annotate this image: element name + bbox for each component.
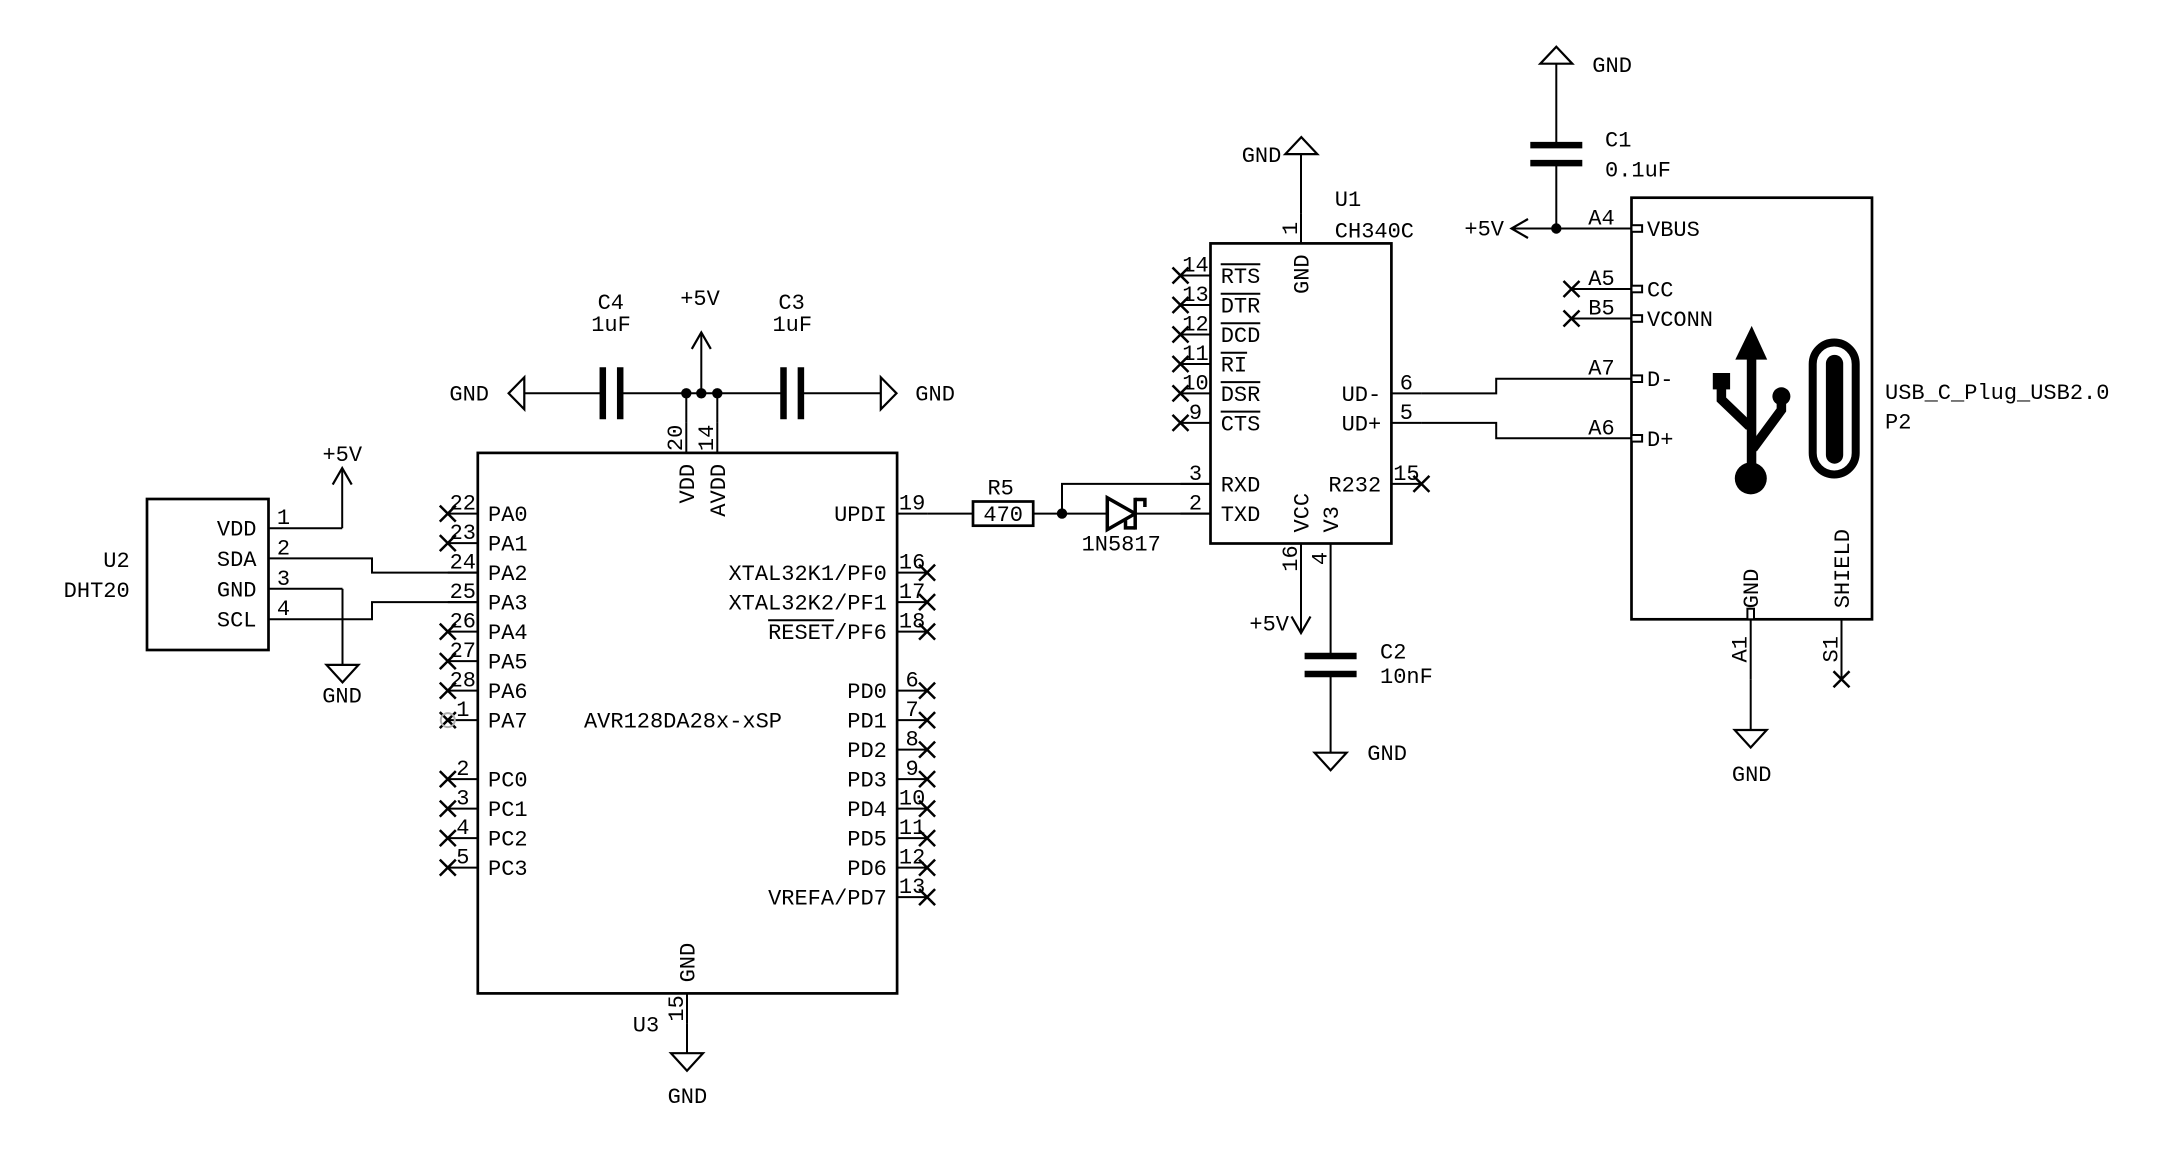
pin 16 VCC xyxy=(1279,493,1316,574)
svg-text:27: 27 xyxy=(450,639,476,664)
svg-text:1uF: 1uF xyxy=(591,313,631,338)
capacitor C4 xyxy=(600,367,607,419)
svg-text:AVR128DA28x-xSP: AVR128DA28x-xSP xyxy=(584,710,782,735)
svg-text:24: 24 xyxy=(450,551,476,576)
svg-text:DHT20: DHT20 xyxy=(64,579,130,604)
sensor U2 box xyxy=(147,499,269,650)
svg-text:6: 6 xyxy=(1400,371,1413,396)
pin 24 PA2 xyxy=(448,551,528,588)
svg-text:VDD: VDD xyxy=(676,464,701,504)
svg-text:DCD: DCD xyxy=(1221,324,1261,349)
svg-text:PA0: PA0 xyxy=(488,503,528,528)
pin 20 VDD xyxy=(664,423,701,504)
svg-text:PD6: PD6 xyxy=(847,857,887,882)
svg-text:15: 15 xyxy=(1393,462,1419,487)
ground GND (P2) xyxy=(1732,730,1772,788)
pin 4 PC2 xyxy=(440,816,528,853)
wire VCC down xyxy=(1300,574,1302,634)
wire VDD to +5V xyxy=(299,527,343,529)
svg-text:UD-: UD- xyxy=(1342,383,1382,408)
svg-text:U2: U2 xyxy=(103,549,129,574)
pin 7 PD1 xyxy=(847,698,935,735)
svg-text:VREFA/PD7: VREFA/PD7 xyxy=(768,887,887,912)
wire GND to C4 xyxy=(524,392,603,394)
svg-text:GND: GND xyxy=(915,383,955,408)
pin 4 V3 xyxy=(1308,506,1345,573)
svg-text:VBUS: VBUS xyxy=(1647,218,1700,243)
svg-text:28: 28 xyxy=(450,669,476,694)
wire diode to TXD xyxy=(1135,513,1210,515)
svg-text:+5V: +5V xyxy=(680,287,720,312)
pin 14 RTS xyxy=(1173,254,1261,291)
svg-text:A6: A6 xyxy=(1588,416,1614,441)
svg-text:10: 10 xyxy=(1182,371,1208,396)
pin 12 PD6 xyxy=(847,846,935,883)
svg-text:U1: U1 xyxy=(1335,188,1361,213)
pin 16 XTAL32K1_PF0 xyxy=(728,551,935,588)
wire GND pin up xyxy=(1300,154,1302,213)
wire UPDI to R5 xyxy=(927,513,973,515)
pin 1 GND xyxy=(1279,213,1316,294)
svg-text:PA5: PA5 xyxy=(488,651,528,676)
svg-text:22: 22 xyxy=(450,492,476,517)
svg-text:4: 4 xyxy=(1308,552,1333,565)
svg-text:PA4: PA4 xyxy=(488,621,528,646)
pin 14 AVDD xyxy=(695,423,732,517)
svg-text:R5: R5 xyxy=(987,477,1013,502)
svg-text:+5V: +5V xyxy=(322,443,362,468)
wire UD+ to D+ xyxy=(1421,423,1631,438)
svg-text:9: 9 xyxy=(1189,401,1202,426)
svg-text:PD0: PD0 xyxy=(847,680,887,705)
svg-text:17: 17 xyxy=(899,580,925,605)
svg-text:SDA: SDA xyxy=(217,548,257,573)
svg-text:1: 1 xyxy=(1279,222,1304,235)
ground GND (C1 top) xyxy=(1540,47,1632,79)
pin 12 DCD xyxy=(1173,313,1261,350)
svg-text:C1: C1 xyxy=(1605,129,1631,154)
pin 9 CTS xyxy=(1173,401,1261,438)
svg-text:DSR: DSR xyxy=(1221,383,1261,408)
svg-text:A7: A7 xyxy=(1588,357,1614,382)
svg-text:16: 16 xyxy=(1279,545,1304,571)
svg-text:USB_C_Plug_USB2.0: USB_C_Plug_USB2.0 xyxy=(1885,381,2109,406)
svg-text:SCL: SCL xyxy=(217,609,257,634)
svg-text:1: 1 xyxy=(456,698,469,723)
pin 1 VDD of U2 xyxy=(217,506,299,543)
pin 27 PA5 xyxy=(440,639,528,676)
pin A1 GND of P2 xyxy=(1729,569,1766,680)
svg-text:PA7: PA7 xyxy=(488,710,528,735)
power +5V (VCC) xyxy=(1249,613,1310,638)
svg-text:26: 26 xyxy=(450,610,476,635)
svg-text:GND: GND xyxy=(1242,144,1282,169)
svg-text:5: 5 xyxy=(456,846,469,871)
svg-text:PD4: PD4 xyxy=(847,798,887,823)
svg-text:3: 3 xyxy=(456,787,469,812)
pin 13 VREFA_PD7 xyxy=(768,875,935,912)
svg-text:1: 1 xyxy=(277,506,290,531)
svg-text:B5: B5 xyxy=(1588,297,1614,322)
svg-text:VCONN: VCONN xyxy=(1647,308,1713,333)
svg-text:PA1: PA1 xyxy=(488,533,528,558)
svg-text:3: 3 xyxy=(277,567,290,592)
svg-text:GND: GND xyxy=(1291,254,1316,294)
svg-text:GND: GND xyxy=(668,1085,708,1110)
pin A4 VBUS of P2 xyxy=(1588,207,1700,244)
svg-text:2: 2 xyxy=(1189,492,1202,517)
wire GND (U2) xyxy=(299,588,343,590)
pin B5 VCONN of P2 xyxy=(1564,297,1714,334)
svg-text:23: 23 xyxy=(450,521,476,546)
svg-text:A5: A5 xyxy=(1588,267,1614,292)
svg-text:11: 11 xyxy=(1182,342,1208,367)
svg-text:2: 2 xyxy=(456,757,469,782)
pin A7 D- of P2 xyxy=(1588,357,1673,394)
junction (+5V stem) xyxy=(696,388,706,398)
svg-text:1N5817: 1N5817 xyxy=(1082,533,1161,558)
svg-text:D-: D- xyxy=(1647,368,1673,393)
pin 26 PA4 xyxy=(440,610,528,647)
svg-text:18: 18 xyxy=(899,610,925,635)
USB-C receptacle icon xyxy=(1813,343,1856,475)
pin 6 PD0 xyxy=(847,669,935,706)
svg-text:PC1: PC1 xyxy=(488,798,528,823)
svg-text:A4: A4 xyxy=(1588,207,1614,232)
svg-text:PA3: PA3 xyxy=(488,592,528,617)
pin 2 SDA of U2 xyxy=(217,536,299,573)
svg-text:P2: P2 xyxy=(1885,411,1911,436)
pin 10 PD4 xyxy=(847,787,935,824)
wire SCL to PA3 xyxy=(299,602,478,619)
pin 9 PD3 xyxy=(847,757,935,794)
svg-text:PC3: PC3 xyxy=(488,857,528,882)
svg-text:U3: U3 xyxy=(633,1014,659,1039)
resistor R5 xyxy=(973,502,1033,526)
pin 15 R232 xyxy=(1328,462,1429,499)
wire U3 GND pin down xyxy=(686,1023,688,1053)
wire V3 to C2 xyxy=(1330,574,1332,657)
power +5V (VBUS) xyxy=(1464,218,1528,243)
svg-text:D+: D+ xyxy=(1647,428,1673,453)
svg-text:RTS: RTS xyxy=(1221,265,1261,290)
svg-text:V3: V3 xyxy=(1320,506,1345,532)
junction (VDD pin20) xyxy=(681,388,691,398)
pin 4 SCL of U2 xyxy=(217,597,299,634)
wire R5 to diode xyxy=(1033,513,1107,515)
svg-text:TXD: TXD xyxy=(1221,503,1261,528)
wire +5V to VBUS xyxy=(1512,228,1632,230)
pin 6 UD- xyxy=(1342,371,1422,408)
svg-text:PC0: PC0 xyxy=(488,769,528,794)
junction (AVDD pin14) xyxy=(712,388,722,398)
svg-text:+5V: +5V xyxy=(1249,613,1289,638)
pin 13 DTR xyxy=(1173,283,1261,320)
svg-text:PA6: PA6 xyxy=(488,680,528,705)
wire SDA to PA2 xyxy=(299,558,478,572)
ground GND (U2) xyxy=(322,665,362,710)
pin 11 RI xyxy=(1173,342,1248,379)
pin 17 XTAL32K2_PF1 xyxy=(728,580,935,617)
wire A1 GND down xyxy=(1750,679,1752,730)
wire UD- to D- xyxy=(1421,379,1631,394)
svg-text:GND: GND xyxy=(1732,763,1772,788)
power +5V (rail) xyxy=(680,287,720,393)
svg-text:GND: GND xyxy=(217,578,257,603)
svg-text:VDD: VDD xyxy=(217,518,257,543)
svg-text:GND: GND xyxy=(449,383,489,408)
ground GND (U3) xyxy=(668,1053,708,1110)
pin S1 SHIELD of P2 xyxy=(1819,529,1856,687)
svg-text:7: 7 xyxy=(905,698,918,723)
svg-text:14: 14 xyxy=(695,425,720,451)
svg-text:9: 9 xyxy=(905,757,918,782)
svg-text:4: 4 xyxy=(277,597,290,622)
junction (VBUS net) xyxy=(1551,223,1561,233)
svg-text:12: 12 xyxy=(899,846,925,871)
connector P2 box xyxy=(1632,198,1873,620)
pin 3 GND of U2 xyxy=(217,567,299,604)
wire VDD pin to rail xyxy=(685,393,687,423)
pin 5 PC3 xyxy=(440,846,528,883)
svg-text:13: 13 xyxy=(1182,283,1208,308)
svg-text:5: 5 xyxy=(1400,401,1413,426)
pin 2 PC0 xyxy=(440,757,528,794)
svg-text:C2: C2 xyxy=(1380,640,1406,665)
IC U1 box xyxy=(1211,243,1392,543)
pin A5 CC of P2 xyxy=(1564,267,1674,304)
capacitor C1 xyxy=(1530,142,1582,149)
pin 23 PA1 xyxy=(440,521,528,558)
pin A6 D+ of P2 xyxy=(1588,416,1673,453)
svg-text:GND: GND xyxy=(1592,54,1632,79)
svg-text:2: 2 xyxy=(277,536,290,561)
svg-text:S1: S1 xyxy=(1819,636,1844,662)
svg-text:XTAL32K2/PF1: XTAL32K2/PF1 xyxy=(728,592,886,617)
pin 3 PC1 xyxy=(440,787,528,824)
svg-text:VCC: VCC xyxy=(1291,493,1316,533)
pin 10 DSR xyxy=(1173,371,1261,408)
svg-text:4: 4 xyxy=(456,816,469,841)
svg-text:PD2: PD2 xyxy=(847,739,887,764)
svg-text:PD3: PD3 xyxy=(847,769,887,794)
capacitor C3 xyxy=(780,367,787,419)
pin 15 GND xyxy=(665,943,702,1024)
wire branch to RXD xyxy=(1062,484,1211,514)
ground GND (C2) xyxy=(1315,742,1407,770)
svg-text:R232: R232 xyxy=(1328,473,1381,498)
svg-text:GND: GND xyxy=(1367,742,1407,767)
wire GND to C1 xyxy=(1555,64,1557,145)
svg-text:11: 11 xyxy=(899,816,925,841)
pin 25 PA3 xyxy=(448,580,528,617)
svg-text:19: 19 xyxy=(899,492,925,517)
wire C4 to C3 xyxy=(620,392,783,394)
svg-text:12: 12 xyxy=(1182,313,1208,338)
svg-text:16: 16 xyxy=(899,551,925,576)
svg-text:6: 6 xyxy=(905,669,918,694)
svg-text:14: 14 xyxy=(1182,254,1208,279)
svg-text:CTS: CTS xyxy=(1221,412,1261,437)
svg-text:UPDI: UPDI xyxy=(834,503,887,528)
svg-text:25: 25 xyxy=(450,580,476,605)
svg-text:3: 3 xyxy=(1189,462,1202,487)
svg-text:20: 20 xyxy=(664,425,689,451)
svg-text:RESET/PF6: RESET/PF6 xyxy=(768,621,887,646)
svg-text:PA2: PA2 xyxy=(488,562,528,587)
USB trident icon xyxy=(1713,326,1791,495)
pin 18 RESET_PF6 xyxy=(768,610,935,647)
svg-text:8: 8 xyxy=(905,728,918,753)
no-connect circle PA7 xyxy=(441,713,455,727)
MCU U3 box xyxy=(478,453,897,994)
wire C3 to GND xyxy=(801,392,881,394)
junction (RXD branch) xyxy=(1057,508,1067,518)
svg-text:RI: RI xyxy=(1221,354,1247,379)
svg-text:10: 10 xyxy=(899,787,925,812)
svg-text:470: 470 xyxy=(983,503,1023,528)
svg-text:RXD: RXD xyxy=(1221,473,1261,498)
pin 5 UD+ xyxy=(1342,401,1422,438)
pin 1 PA7 xyxy=(440,698,528,735)
diode D1 1N5817 xyxy=(1107,498,1145,530)
svg-text:PD1: PD1 xyxy=(847,710,887,735)
svg-text:CC: CC xyxy=(1647,279,1673,304)
svg-text:GND: GND xyxy=(677,943,702,983)
pin 28 PA6 xyxy=(440,669,528,706)
power +5V (U2) xyxy=(322,443,362,528)
ground GND (U1 top) xyxy=(1242,137,1318,169)
svg-text:1uF: 1uF xyxy=(772,313,812,338)
pin 11 PD5 xyxy=(847,816,935,853)
svg-text:GND: GND xyxy=(1740,569,1765,609)
svg-text:15: 15 xyxy=(665,995,690,1021)
ground GND (right of C3) xyxy=(881,377,955,409)
capacitor C2 xyxy=(1305,653,1357,660)
pin 19 UPDI xyxy=(834,492,927,528)
svg-text:A1: A1 xyxy=(1729,636,1754,662)
svg-text:SHIELD: SHIELD xyxy=(1831,529,1856,608)
wire C2 to GND xyxy=(1330,674,1332,753)
svg-text:UD+: UD+ xyxy=(1342,412,1382,437)
svg-text:DTR: DTR xyxy=(1221,295,1261,320)
svg-text:CH340C: CH340C xyxy=(1335,220,1414,245)
wire C1 to VBUS xyxy=(1555,163,1557,228)
wire AVDD pin to rail xyxy=(716,393,718,423)
pin 8 PD2 xyxy=(847,728,935,765)
svg-text:13: 13 xyxy=(899,875,925,900)
svg-text:GND: GND xyxy=(322,684,362,709)
svg-text:AVDD: AVDD xyxy=(707,464,732,517)
svg-text:XTAL32K1/PF0: XTAL32K1/PF0 xyxy=(728,562,886,587)
svg-text:+5V: +5V xyxy=(1464,218,1504,243)
ground GND (left of C4) xyxy=(449,377,524,409)
pin 2 TXD xyxy=(1181,492,1261,528)
svg-text:PC2: PC2 xyxy=(488,828,528,853)
svg-text:PD5: PD5 xyxy=(847,828,887,853)
pin 3 RXD xyxy=(1181,462,1261,499)
svg-text:10nF: 10nF xyxy=(1380,665,1433,690)
pin 22 PA0 xyxy=(440,492,528,528)
svg-text:0.1uF: 0.1uF xyxy=(1605,159,1671,184)
